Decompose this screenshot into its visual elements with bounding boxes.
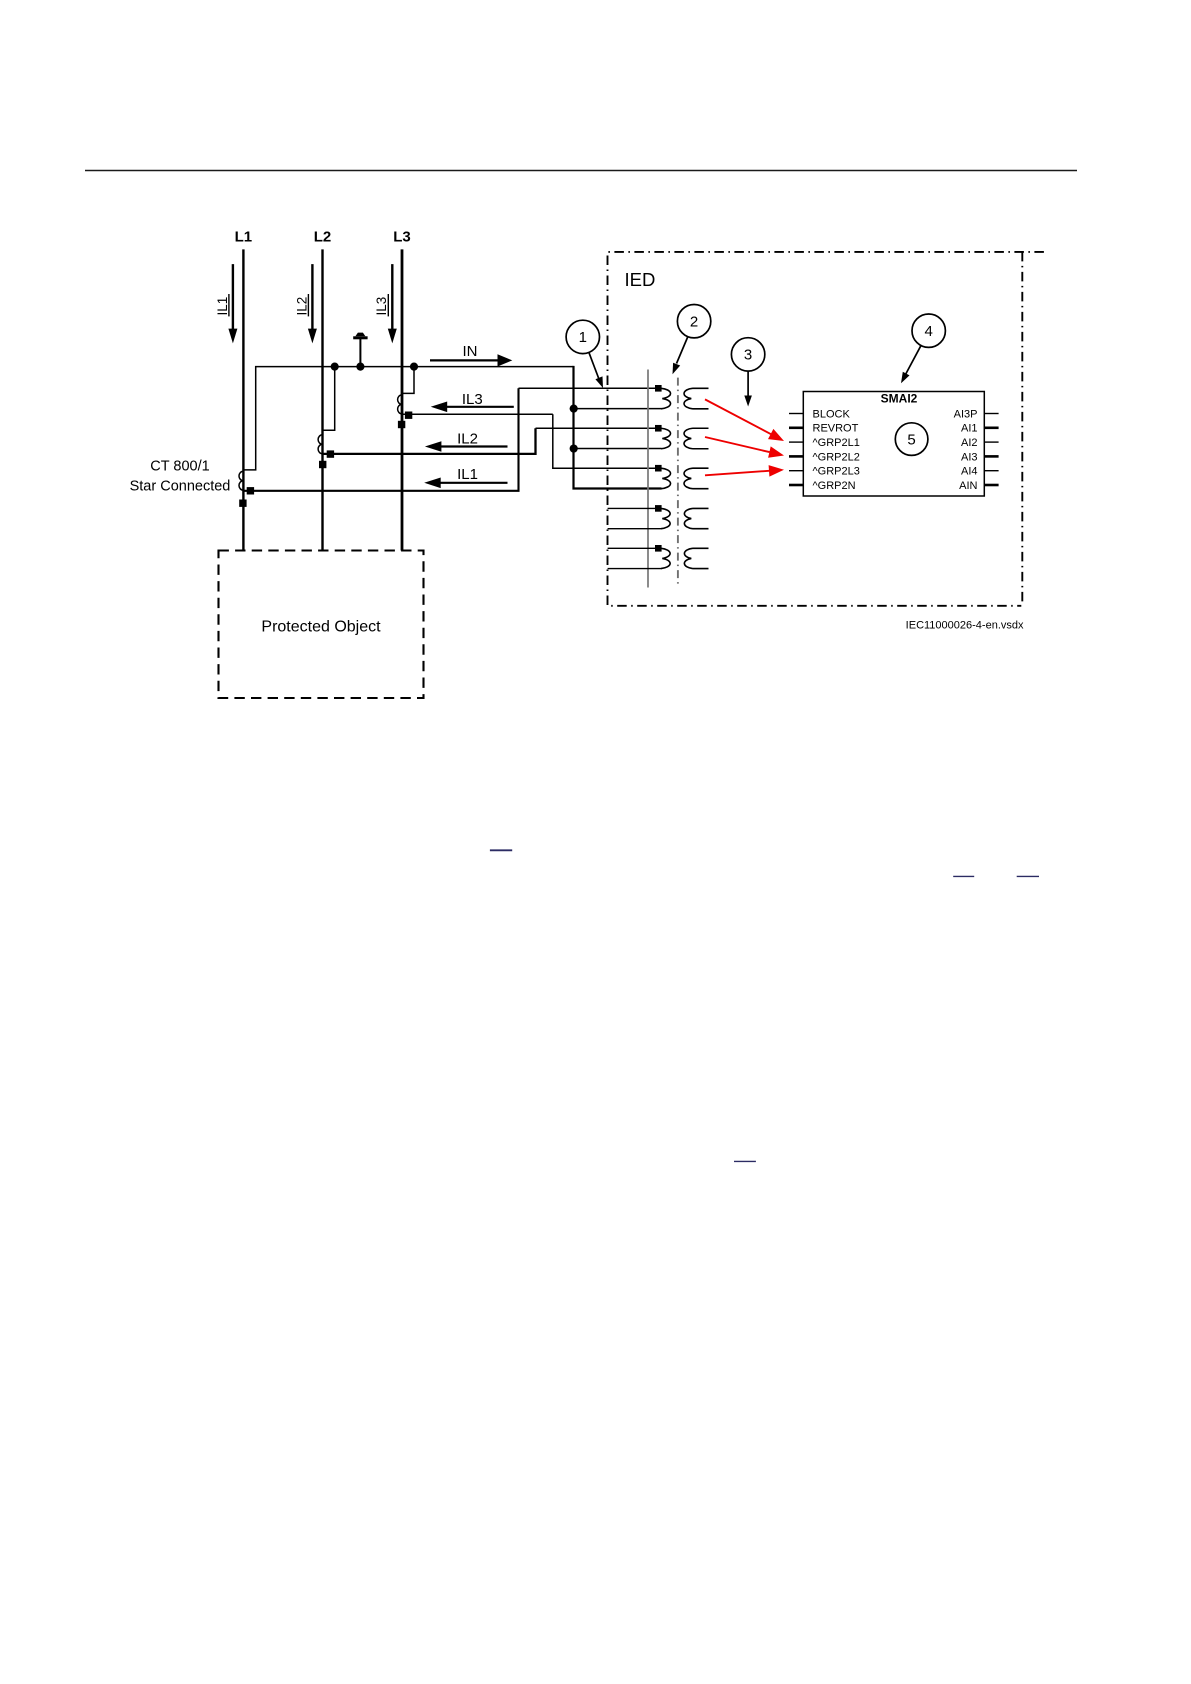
svg-text:4: 4 [925, 323, 933, 340]
wire T1 input [536, 427, 662, 429]
svg-text:AI2: AI2 [961, 437, 978, 449]
junction dot T1 return [570, 444, 578, 452]
svg-text:AIN: AIN [959, 480, 977, 492]
callout 1 arrow [589, 352, 603, 388]
svg-text:AI1: AI1 [961, 423, 978, 435]
phase conductor L3 [401, 249, 404, 550]
rotated label IL1 [215, 294, 230, 316]
annotation arrow IL1 [424, 478, 507, 489]
current direction arrow IL3 [388, 264, 397, 343]
svg-text:REVROT: REVROT [813, 423, 859, 435]
transformer T3 primary winding [661, 508, 670, 528]
callout circle 3 [731, 338, 764, 371]
svg-text:BLOCK: BLOCK [813, 408, 851, 420]
transformer T0 polarity square [655, 385, 662, 392]
svg-text:AI3P: AI3P [954, 408, 978, 420]
annotation arrow IL3 [431, 402, 514, 413]
wire IL2 [324, 428, 536, 454]
pin AI4 [961, 466, 999, 478]
pin AI2 [961, 437, 999, 449]
pin GRP2L3 [789, 466, 860, 478]
wire IL3 [403, 413, 553, 415]
pin AI1 [961, 423, 999, 435]
neutral flag symbol [353, 333, 367, 367]
callout circle 2 [677, 305, 710, 338]
transformer T4 polarity square [655, 545, 662, 552]
callout 2 arrow [673, 337, 688, 375]
red mapping arrow 3 [705, 465, 784, 477]
transformer T2 secondary winding [684, 468, 708, 489]
function block SMAI2 [803, 392, 984, 497]
callout 3 arrow [744, 371, 752, 407]
junction dot T0 return [570, 405, 578, 413]
annotation arrow IL2 [425, 441, 508, 452]
wire T0 return [574, 408, 662, 410]
transformer T2 polarity square [655, 465, 662, 472]
rotated label IL3 [374, 294, 389, 316]
svg-text:^GRP2L2: ^GRP2L2 [813, 451, 860, 463]
junction dot L3 lead on IN [410, 363, 418, 371]
svg-text:CT 800/1: CT 800/1 [150, 459, 209, 475]
phase conductor L1 [242, 249, 244, 550]
wire IN vertical to T2 return [574, 366, 662, 489]
pin AIN [959, 480, 998, 492]
red mapping arrow 2 [705, 437, 784, 458]
CT L1 polarity square [239, 500, 246, 507]
transformer T0 secondary winding [684, 388, 708, 409]
svg-text:L1: L1 [235, 229, 253, 246]
red mapping arrow 1 [705, 399, 784, 441]
transformer T3 polarity square [655, 505, 662, 512]
hyperlink underline mark D [734, 1160, 756, 1162]
pin AI3P [954, 408, 999, 420]
wire T2 input [553, 414, 662, 468]
phase conductor L2 [321, 249, 323, 550]
CT L3 winding [398, 395, 402, 414]
callout 4 arrow [901, 345, 921, 383]
svg-text:^GRP2L1: ^GRP2L1 [813, 437, 860, 449]
svg-text:Protected Object: Protected Object [261, 619, 381, 636]
protected object box [219, 551, 424, 699]
svg-text:^GRP2N: ^GRP2N [813, 480, 856, 492]
svg-text:AI3: AI3 [961, 451, 978, 463]
junction: flag on IN wire [356, 363, 364, 371]
CT L3 polarity square [398, 421, 405, 428]
annotation arrow IN [430, 354, 512, 366]
IED enclosure (dash-dot) [608, 252, 1044, 606]
svg-text:L3: L3 [393, 229, 411, 246]
transformer core line (grey dash-dot) [677, 378, 679, 585]
wire IL1 [243, 388, 518, 491]
svg-text:IL1: IL1 [457, 466, 478, 483]
IED enclosure right edge [1021, 252, 1023, 606]
transformer T1 polarity square [655, 425, 662, 432]
wire T1 return [574, 448, 662, 450]
svg-text:IL3: IL3 [374, 297, 389, 316]
transformer T1 secondary winding [684, 428, 708, 449]
transformer T1 primary winding [661, 428, 671, 449]
header rule [85, 170, 1077, 172]
terminal square IL1 [247, 487, 254, 494]
svg-text:AI4: AI4 [961, 466, 978, 478]
svg-text:Star Connected: Star Connected [130, 479, 231, 495]
current direction arrow IL1 [228, 264, 237, 343]
terminal square IL2 [327, 450, 334, 457]
callout circle 4 [912, 314, 945, 347]
CT L1 winding [239, 471, 243, 490]
transformer T2 primary winding [661, 468, 671, 489]
rotated label IL2 [294, 294, 309, 316]
svg-text:2: 2 [690, 314, 698, 331]
pin GRP2L2 [789, 451, 860, 463]
svg-text:IL3: IL3 [462, 391, 483, 408]
wire T0 input [519, 387, 662, 389]
svg-text:^GRP2L3: ^GRP2L3 [813, 466, 860, 478]
current direction arrow IL2 [308, 264, 317, 343]
svg-text:5: 5 [907, 431, 915, 448]
svg-text:3: 3 [744, 347, 752, 364]
wire IN (star point) [243, 367, 573, 470]
svg-text:IN: IN [463, 343, 478, 360]
transformer T0 primary winding [661, 388, 671, 409]
svg-text:SMAI2: SMAI2 [881, 392, 918, 406]
svg-text:IED: IED [625, 269, 656, 290]
svg-text:IL1: IL1 [215, 297, 230, 316]
hyperlink underline mark C [1017, 875, 1039, 877]
hyperlink underline mark B [953, 875, 974, 877]
CT L2 polarity square [319, 461, 326, 468]
transformer T4 primary loop [608, 548, 662, 568]
svg-text:IEC11000026-4-en.vsdx: IEC11000026-4-en.vsdx [906, 620, 1024, 632]
svg-text:1: 1 [579, 329, 587, 346]
CT L2 winding [318, 435, 322, 454]
transformer T4 secondary winding [684, 548, 708, 568]
svg-text:IL2: IL2 [294, 297, 309, 316]
pin GRP2N [789, 480, 856, 492]
terminal square IL3 [405, 412, 412, 419]
transformer screen line (grey) [647, 370, 649, 588]
pin BLOCK [789, 408, 850, 420]
pin AI3 [961, 451, 999, 463]
CT L3 top lead [402, 367, 414, 394]
transformer T3 primary loop [608, 508, 662, 528]
pin GRP2L1 [789, 437, 860, 449]
transformer T4 primary winding [661, 548, 670, 568]
junction dot L2 lead on IN [331, 363, 339, 371]
CT L2 top lead [323, 367, 335, 431]
hyperlink underline mark A [490, 849, 512, 851]
svg-text:L2: L2 [314, 229, 332, 246]
transformer T3 secondary winding [684, 508, 708, 528]
pin REVROT [789, 423, 859, 435]
svg-text:IL2: IL2 [457, 430, 478, 447]
callout circle 1 [566, 320, 599, 353]
callout circle 5 [895, 423, 928, 456]
